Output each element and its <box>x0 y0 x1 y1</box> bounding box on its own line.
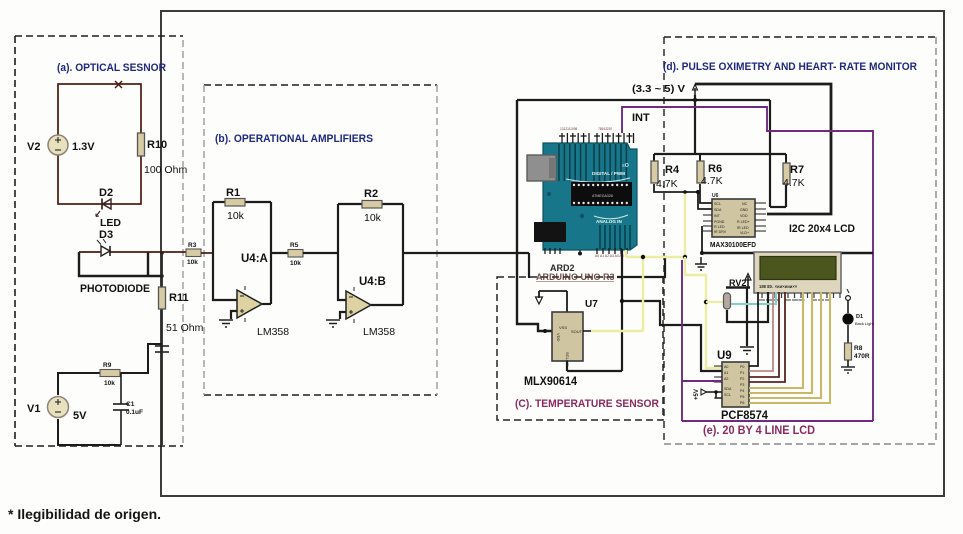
ground arrow U7 <box>536 297 543 304</box>
resistor R8 <box>845 343 870 367</box>
ground RV2 <box>740 347 754 354</box>
svg-text:U9: U9 <box>717 350 732 362</box>
wire U9 P3 dark maroon <box>749 292 785 382</box>
svg-text:VSS: VSS <box>559 325 567 330</box>
wire yellow bus horizontal <box>625 250 627 257</box>
resistor R2 <box>362 188 382 224</box>
svg-text:P4: P4 <box>740 389 744 393</box>
junction U7 vdd <box>543 329 547 333</box>
wire U9 P6 khaki <box>749 292 821 398</box>
wire R4 bottom to MAX <box>654 184 712 209</box>
svg-text:VDD: VDD <box>740 214 748 218</box>
svg-text:R9: R9 <box>103 362 112 369</box>
wire purple to U9 <box>682 380 722 382</box>
wire R7 lower branch <box>770 100 786 207</box>
svg-text:INT: INT <box>632 112 650 124</box>
svg-text:R LED: R LED <box>714 225 725 229</box>
wire supply to U7 <box>517 100 552 331</box>
resistor R9 <box>100 362 120 387</box>
section box (a) Optical Sensor <box>15 36 183 446</box>
svg-text:76543210: 76543210 <box>598 127 612 131</box>
svg-text:DIGITAL / PWM: DIGITAL / PWM <box>592 171 625 176</box>
svg-text:VLD+: VLD+ <box>740 231 749 235</box>
resistor R1 <box>225 187 245 222</box>
svg-text:LED: LED <box>100 217 121 229</box>
svg-text:V2: V2 <box>27 141 40 153</box>
svg-text:4.7K: 4.7K <box>656 178 678 190</box>
junction R4 net <box>696 190 700 194</box>
op-amp U4:B <box>346 276 395 338</box>
op-amp U4:B wires <box>338 204 529 319</box>
source V2 <box>27 135 95 155</box>
svg-text:1.3V: 1.3V <box>72 141 95 153</box>
wire U9 P5 khaki <box>749 292 812 393</box>
svg-text:D1: D1 <box>856 314 863 320</box>
capacitor C1 <box>113 373 143 445</box>
wire photodiode to R3 <box>79 251 186 253</box>
wire bottom rail to purple post <box>700 252 873 254</box>
svg-text:MLX90614: MLX90614 <box>524 376 578 388</box>
junction +5V <box>714 390 718 394</box>
vertical rail on frame edge <box>161 253 163 445</box>
LED D1 backlight <box>842 289 874 343</box>
svg-text:0.1uF: 0.1uF <box>126 409 143 416</box>
svg-text:≡O: ≡O <box>622 163 629 169</box>
svg-text:4.7K: 4.7K <box>783 177 805 189</box>
svg-text:PGND: PGND <box>714 220 725 224</box>
resistor R7 <box>783 154 805 189</box>
wire optical loop <box>58 84 141 204</box>
svg-text:MAX30100EFD: MAX30100EFD <box>710 240 757 249</box>
svg-text:(C). TEMPERATURE SENSOR: (C). TEMPERATURE SENSOR <box>515 398 659 410</box>
arduino bottom pin stubs <box>545 248 627 254</box>
wire U7 bottom to arduino pin <box>567 249 622 371</box>
svg-text:5V: 5V <box>73 410 87 422</box>
arduino U ARD2 board <box>527 143 637 250</box>
svg-text:10k: 10k <box>364 212 382 224</box>
svg-text:NC: NC <box>742 202 748 206</box>
svg-text:ANALOG IN: ANALOG IN <box>596 219 622 224</box>
wire yellow sda vertical <box>684 192 686 257</box>
arduino top pin tiny labels <box>560 127 612 131</box>
LCD module body <box>754 252 841 293</box>
node supply arrow <box>693 85 698 98</box>
svg-text:LM358: LM358 <box>363 326 395 338</box>
wire yellow to U9 <box>685 257 722 368</box>
resistor R3 <box>186 242 213 266</box>
wire U9 P7 khaki <box>749 292 830 403</box>
source V1 <box>27 397 87 423</box>
ground U4:A <box>219 320 233 327</box>
svg-text:IR LED: IR LED <box>737 226 749 230</box>
svg-text:10k: 10k <box>290 260 301 267</box>
border frame <box>161 11 944 496</box>
wire arduino to U9 scl <box>622 301 722 371</box>
ground U4:B <box>326 320 340 327</box>
wire purple box left <box>681 260 683 421</box>
wire INT purple <box>622 107 873 421</box>
svg-text:R8: R8 <box>854 345 863 352</box>
wire U9 P1 rose <box>749 292 773 371</box>
op-amp U4:A wires <box>213 202 288 319</box>
svg-text:R LED+: R LED+ <box>737 220 750 224</box>
svg-text:Back Light: Back Light <box>855 321 875 326</box>
svg-text:SDA: SDA <box>714 208 722 212</box>
svg-text:A0: A0 <box>724 365 728 369</box>
wire supply thick to MAX vdd <box>695 84 831 214</box>
arduino reset pin mark <box>578 250 582 256</box>
wire stub near temp box <box>617 258 665 277</box>
svg-text:(a). OPTICAL SESNOR: (a). OPTICAL SESNOR <box>57 62 166 74</box>
section box (d) Pulse Oximetry <box>664 37 936 444</box>
wire U9 P2 dark maroon <box>749 292 779 377</box>
section box (b) Operational Amplifiers <box>204 85 437 395</box>
svg-text:1312111098: 1312111098 <box>560 127 577 131</box>
wire V1 top <box>58 344 162 445</box>
resistor R10 <box>138 133 188 176</box>
svg-text:SOUT: SOUT <box>571 329 583 334</box>
wire op-amp output to Arduino <box>528 253 530 278</box>
svg-text:R11: R11 <box>169 292 189 304</box>
arduino bottom pin tiny labels <box>595 254 624 258</box>
junction supply <box>693 98 697 102</box>
wire U7 out pin stub <box>583 330 591 332</box>
svg-text:10k: 10k <box>104 380 115 387</box>
svg-text:(b). OPERATIONAL AMPLIFIERS: (b). OPERATIONAL AMPLIFIERS <box>215 133 373 145</box>
svg-text:(e). 20 BY 4 LINE LCD: (e). 20 BY 4 LINE LCD <box>703 425 815 437</box>
resistor R4 <box>651 154 680 190</box>
wire yellow U7 out <box>591 257 643 331</box>
svg-text:(d). PULSE OXIMETRY AND HEART-: (d). PULSE OXIMETRY AND HEART- RATE MONI… <box>663 61 917 73</box>
svg-text:ARDUINO UNO R3: ARDUINO UNO R3 <box>536 272 615 282</box>
svg-text:SDA: SDA <box>724 387 732 391</box>
svg-text:P0: P0 <box>740 365 744 369</box>
wire supply arrow down to pullup rail <box>694 95 696 154</box>
section box (c) Temperature Sensor <box>497 277 663 420</box>
svg-text:U4:A: U4:A <box>241 253 268 265</box>
svg-text:P3: P3 <box>740 383 744 387</box>
svg-text:INT: INT <box>714 214 721 218</box>
svg-text:10k: 10k <box>227 210 245 222</box>
wire supply rail horizontal <box>517 99 770 101</box>
svg-text:SCL: SCL <box>724 393 731 397</box>
svg-text:IR DRV: IR DRV <box>714 230 727 234</box>
wire yellow to RV2 <box>706 301 724 303</box>
svg-text:100 Ohm: 100 Ohm <box>144 164 187 176</box>
svg-text:R5: R5 <box>290 242 299 249</box>
op-amp U4:A <box>237 253 289 338</box>
LCD pin cross marks <box>759 299 831 301</box>
IC U7 MLX90614 <box>552 299 598 367</box>
svg-text:R1: R1 <box>226 187 240 199</box>
arduino top pin stubs <box>559 133 634 143</box>
svg-text:R6: R6 <box>708 163 722 175</box>
svg-text:A1: A1 <box>724 371 728 375</box>
svg-text:P2: P2 <box>740 377 744 381</box>
svg-text:188 8Þ. ×ии×иии××: 188 8Þ. ×ии×иии×× <box>759 284 798 289</box>
LED D2 <box>96 187 121 241</box>
svg-text:470R: 470R <box>854 353 870 360</box>
junction yellow top <box>683 190 687 194</box>
wire U9 P4 khaki <box>749 292 803 388</box>
svg-text:R10: R10 <box>147 139 167 151</box>
label +5V <box>694 389 707 400</box>
wire U9 P0 black <box>749 292 758 366</box>
svg-text:U7: U7 <box>585 299 598 310</box>
svg-text:PHOTODIODE: PHOTODIODE <box>80 283 150 295</box>
ground R8 <box>841 367 855 373</box>
svg-text:I2C 20x4 LCD: I2C 20x4 LCD <box>789 223 855 235</box>
svg-text:(3.3 ~ 5) V: (3.3 ~ 5) V <box>632 83 685 95</box>
junction <box>620 299 624 303</box>
svg-text:* Ilegibilidad de origen.: * Ilegibilidad de origen. <box>8 506 161 522</box>
svg-text:U4:B: U4:B <box>359 276 386 288</box>
svg-text:P5: P5 <box>740 395 744 399</box>
junction photodiode net <box>160 251 164 255</box>
resistor R11 <box>159 287 204 334</box>
IC U6 MAX30100 <box>703 193 766 249</box>
junction yellow rv2 <box>704 300 708 304</box>
junction max gnd <box>700 251 704 255</box>
wire U7 top to ground arrow <box>539 291 567 312</box>
wire photodiode loop <box>79 252 162 276</box>
junction yellow <box>641 255 645 259</box>
svg-text:C1: C1 <box>126 401 135 408</box>
wire +5V to U9 <box>706 392 722 398</box>
IC U9 PCF8574 <box>714 350 769 422</box>
wire pullup rail <box>654 153 786 155</box>
svg-text:+5V: +5V <box>694 389 700 400</box>
svg-text:SCL: SCL <box>714 202 721 206</box>
svg-text:VDD: VDD <box>556 333 561 342</box>
svg-text:R2: R2 <box>364 188 378 200</box>
photodiode D3 <box>97 239 110 256</box>
svg-text:P1: P1 <box>740 371 744 375</box>
capacitor on rail <box>155 346 169 352</box>
wire R6 bottom to MAX <box>700 184 712 203</box>
LCD pin stubs <box>762 293 840 298</box>
svg-text:U6: U6 <box>712 193 719 199</box>
svg-text:D3: D3 <box>99 229 113 241</box>
resistor R5 <box>288 242 303 267</box>
resistor R6 <box>697 154 723 187</box>
svg-text:51 Ohm: 51 Ohm <box>166 322 204 334</box>
lamp cross mark <box>115 81 122 88</box>
svg-text:A0 A1 A2 A3 A4 A5: A0 A1 A2 A3 A4 A5 <box>595 254 624 258</box>
svg-text:R4: R4 <box>665 164 680 176</box>
wire cyan contrast <box>731 292 776 304</box>
svg-text:10k: 10k <box>187 259 198 266</box>
trimmer RV2 <box>724 274 769 347</box>
svg-text:4.7K: 4.7K <box>701 175 723 187</box>
svg-text:P6: P6 <box>740 401 744 405</box>
svg-text:GND: GND <box>740 208 748 212</box>
svg-text:LM358: LM358 <box>257 326 289 338</box>
svg-text:R7: R7 <box>790 164 804 176</box>
svg-text:R3: R3 <box>188 242 197 249</box>
ground max <box>695 257 707 270</box>
svg-text:ATMEGA328: ATMEGA328 <box>592 194 613 198</box>
wire R5 to U4:B <box>303 252 338 254</box>
wire purple box bottom <box>682 420 873 422</box>
svg-text:D2: D2 <box>99 187 113 199</box>
svg-text:V1: V1 <box>27 403 40 415</box>
wire MAX gnd down <box>701 226 703 253</box>
svg-text:A2: A2 <box>724 377 728 381</box>
